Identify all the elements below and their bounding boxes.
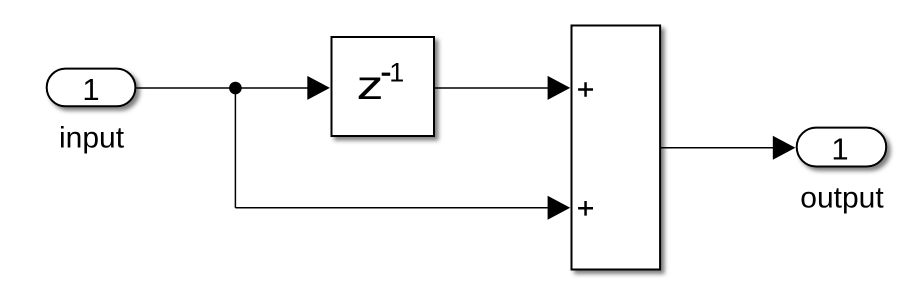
outport block "output" (port 1)	[797, 128, 887, 167]
wire: sum output to outport	[661, 147, 774, 149]
arrowhead into unit delay	[307, 76, 330, 100]
unit delay block U1 (z^-1)	[332, 37, 435, 136]
sum block (Add)	[572, 26, 661, 270]
svg-text:1: 1	[82, 72, 99, 107]
arrowhead into outport	[773, 136, 796, 160]
plus sign (bottom input)	[578, 201, 593, 216]
label "output"	[800, 181, 884, 214]
svg-text:1: 1	[831, 132, 848, 167]
wire: junction to unit delay input	[235, 87, 308, 89]
svg-text:output: output	[800, 181, 884, 214]
svg-text:input: input	[59, 121, 125, 154]
plus sign (top input)	[578, 82, 593, 97]
wire: junction branch down	[234, 88, 236, 208]
svg-text:1: 1	[389, 58, 404, 88]
junction node dot	[229, 82, 242, 95]
arrowhead into sum (bottom input)	[548, 196, 571, 220]
svg-text:z: z	[357, 62, 384, 108]
inport block "input" (port 1)	[47, 69, 136, 107]
arrowhead into sum (top input)	[548, 76, 571, 100]
wire: input to junction	[136, 87, 235, 89]
wire: unit delay output to sum	[435, 87, 549, 89]
label "input"	[59, 121, 125, 154]
wire: branch to sum (bottom input)	[235, 207, 549, 209]
